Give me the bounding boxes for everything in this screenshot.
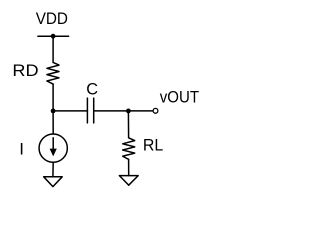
capacitor C left plate (86, 98, 88, 123)
wire RL tap down to RL top (127, 111, 129, 138)
wire current source bottom to left ground (52, 162, 54, 176)
svg-text:vOUT: vOUT (160, 88, 199, 107)
ground (left) (44, 177, 63, 187)
wire node A to capacitor left plate (53, 110, 87, 112)
ground (right) (119, 176, 138, 186)
capacitor C right plate (93, 98, 95, 123)
wire VDD rail to RD top (52, 36, 54, 62)
junction on VDD rail (51, 34, 56, 39)
current source I arrow shaft (52, 138, 54, 151)
svg-text:VDD: VDD (36, 9, 68, 28)
current source I circle (39, 134, 67, 162)
vOUT open terminal circle (153, 108, 158, 113)
wire node A down to current source top (52, 111, 54, 134)
wire capacitor right plate to vOUT terminal (94, 110, 153, 112)
junction dot at RL tap (126, 109, 131, 114)
svg-text:I: I (19, 140, 24, 159)
wire RD bottom to node A (52, 84, 54, 111)
resistor RD (47, 62, 59, 84)
VDD supply rail bar (38, 35, 69, 37)
node A junction dot (51, 109, 56, 114)
current source I arrowhead (50, 149, 57, 157)
svg-text:C: C (86, 80, 98, 99)
resistor RL (123, 138, 135, 160)
wire RL bottom to right ground (128, 159, 130, 175)
svg-text:RD: RD (12, 61, 38, 80)
svg-text:RL: RL (143, 136, 163, 155)
